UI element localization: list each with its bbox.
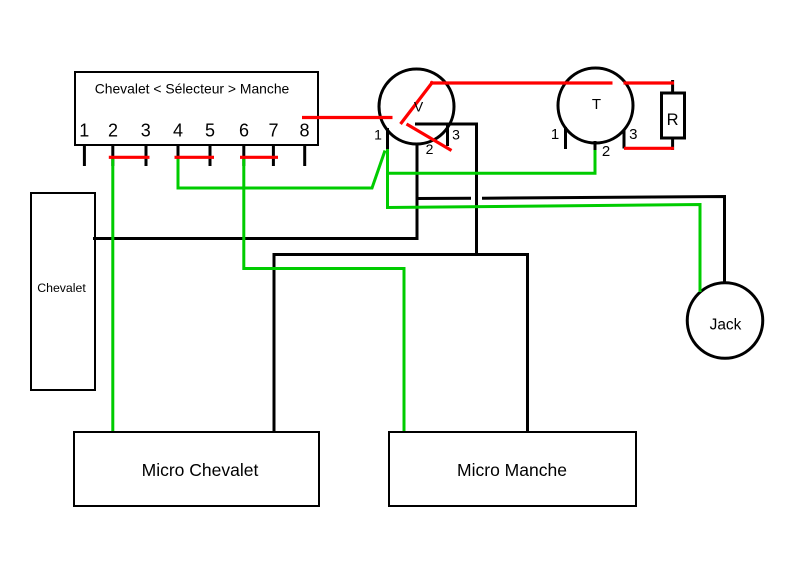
svg-text:1: 1: [374, 127, 382, 143]
svg-text:1: 1: [79, 121, 89, 141]
svg-text:2: 2: [426, 141, 434, 157]
svg-text:T: T: [592, 96, 601, 113]
svg-text:1: 1: [551, 126, 559, 143]
svg-text:R: R: [667, 111, 679, 129]
svg-text:Jack: Jack: [710, 317, 742, 334]
svg-text:2: 2: [108, 121, 118, 141]
svg-text:5: 5: [205, 121, 215, 141]
svg-text:3: 3: [452, 127, 460, 143]
svg-text:7: 7: [268, 121, 278, 141]
svg-text:4: 4: [173, 121, 183, 141]
svg-text:V: V: [414, 99, 424, 115]
svg-text:Micro Chevalet: Micro Chevalet: [142, 460, 259, 480]
svg-text:3: 3: [629, 126, 637, 143]
svg-text:Micro Manche: Micro Manche: [457, 460, 567, 480]
svg-text:8: 8: [299, 121, 309, 141]
svg-text:Chevalet: Chevalet: [37, 281, 86, 295]
svg-text:6: 6: [239, 121, 249, 141]
svg-text:Chevalet < Sélecteur > Manche: Chevalet < Sélecteur > Manche: [95, 81, 290, 97]
svg-text:2: 2: [602, 143, 610, 160]
svg-text:3: 3: [141, 121, 151, 141]
